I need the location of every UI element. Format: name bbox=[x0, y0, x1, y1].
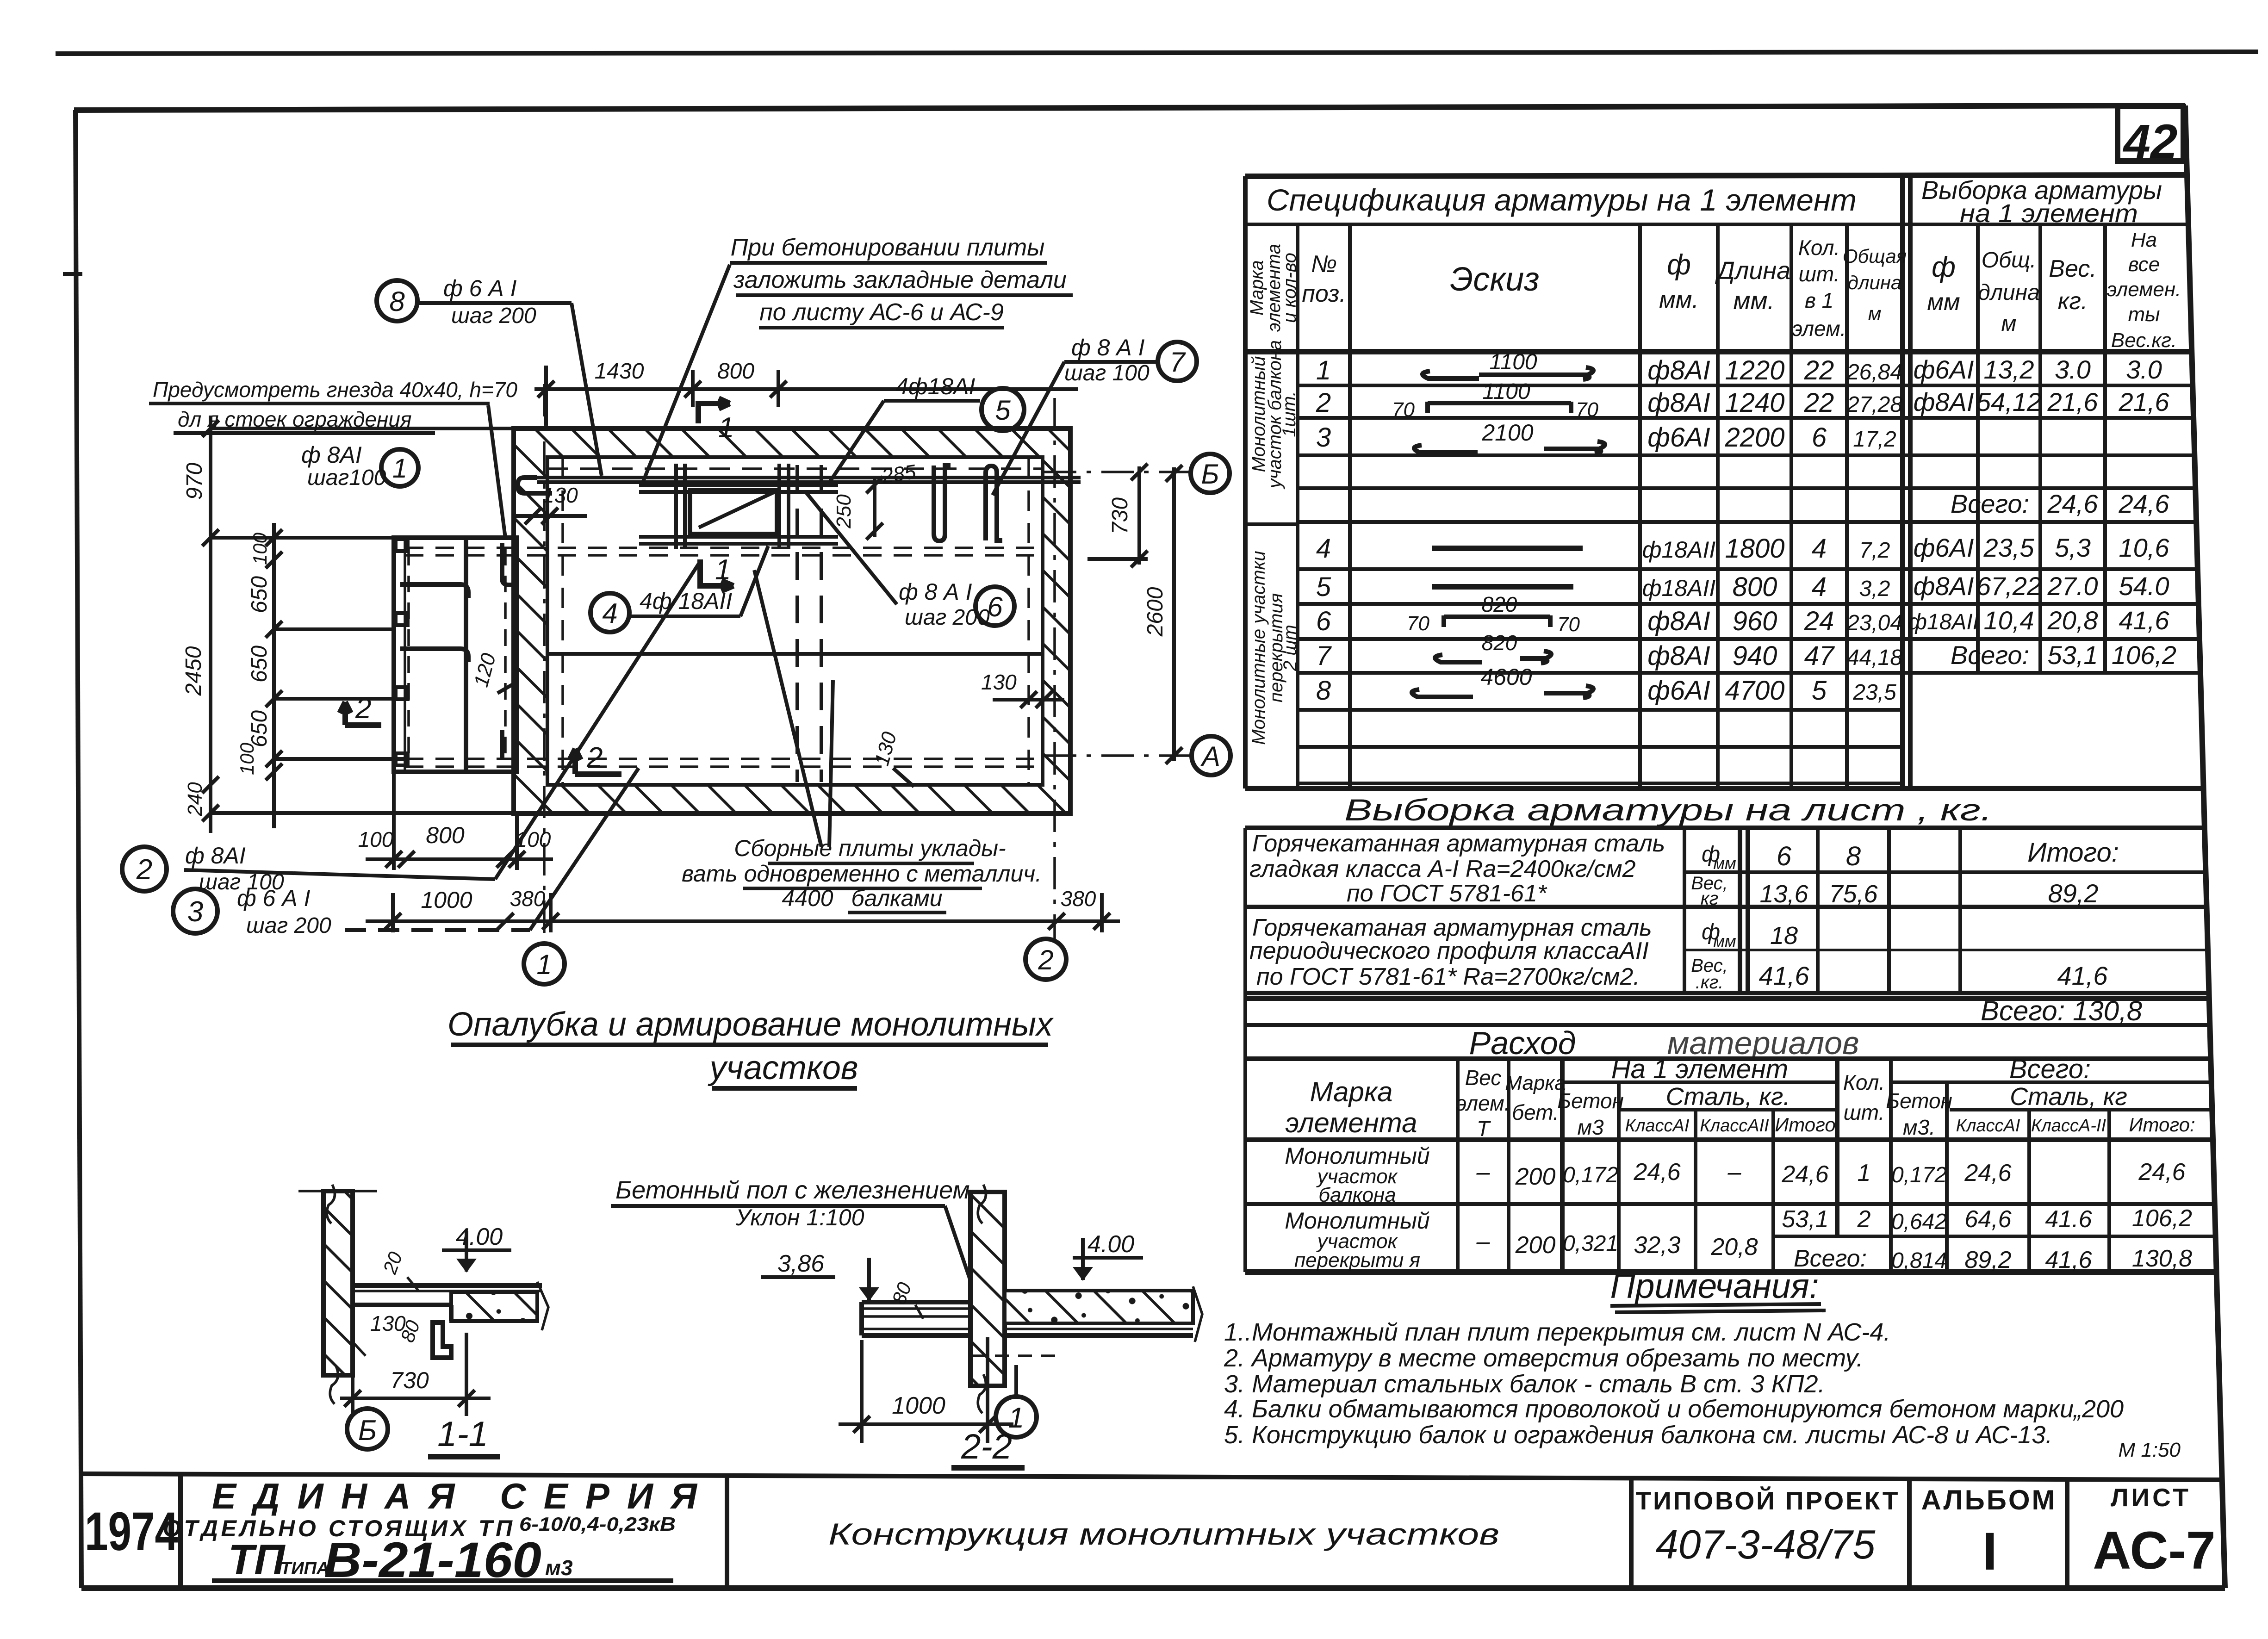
page border bottom bbox=[81, 1585, 2225, 1591]
axis A horizontal bbox=[1044, 754, 1191, 757]
svg-text:участков: участков bbox=[708, 1049, 858, 1086]
svg-text:1: 1 bbox=[718, 412, 734, 444]
svg-text:Итого:: Итого: bbox=[2027, 838, 2119, 868]
svg-text:Т: Т bbox=[1477, 1117, 1491, 1141]
svg-text:Всего:: Всего: bbox=[1951, 489, 2029, 518]
svg-text:Марка: Марка bbox=[1505, 1072, 1566, 1094]
svg-text:шаг 200: шаг 200 bbox=[905, 605, 990, 630]
svg-text:АС-7: АС-7 bbox=[2093, 1521, 2216, 1580]
svg-text:2: 2 bbox=[586, 742, 603, 774]
axis bubble 2 bbox=[1025, 939, 1066, 980]
svg-text:2: 2 bbox=[136, 854, 152, 886]
wall hatch bottom band bbox=[514, 785, 1070, 813]
title block series bbox=[163, 1476, 698, 1588]
section mark 2 balcony bbox=[340, 702, 381, 725]
notes text bbox=[1224, 1318, 2181, 1461]
svg-text:41,6: 41,6 bbox=[2045, 1247, 2092, 1273]
dim 130 right bbox=[993, 691, 1064, 708]
balcony bar 1 bbox=[400, 584, 468, 598]
svg-text:Б: Б bbox=[358, 1415, 377, 1447]
svg-text:Выборка арматуры на лис: Выборка арматуры на лист , кг. bbox=[1344, 793, 1992, 827]
svg-text:шаг 200: шаг 200 bbox=[451, 304, 536, 328]
svg-text:м: м bbox=[2001, 311, 2017, 336]
svg-text:106,2: 106,2 bbox=[2132, 1205, 2192, 1232]
top dim line 1430 / 800 bbox=[534, 366, 1078, 426]
svg-text:мм.: мм. bbox=[1659, 286, 1699, 313]
svg-text:вать одновременно с металлич.: вать одновременно с металлич. bbox=[682, 861, 1042, 887]
svg-text:шаг 200: шаг 200 bbox=[246, 913, 331, 938]
svg-text:ф 6 А I: ф 6 А I bbox=[237, 885, 311, 911]
svg-text:м: м bbox=[1868, 303, 1882, 324]
svg-text:20,8: 20,8 bbox=[1710, 1234, 1758, 1260]
svg-text:3,86: 3,86 bbox=[777, 1250, 824, 1277]
svg-text:КлассАI: КлассАI bbox=[1956, 1116, 2020, 1136]
svg-text:800: 800 bbox=[426, 822, 465, 848]
svg-text:800: 800 bbox=[1733, 572, 1777, 602]
svg-text:ЛИСТ: ЛИСТ bbox=[2111, 1483, 2191, 1512]
svg-text:64,6: 64,6 bbox=[1964, 1206, 2011, 1233]
axis bubble 1 section bbox=[996, 1397, 1037, 1437]
svg-text:дл я стоек ограждения: дл я стоек ограждения bbox=[178, 407, 412, 431]
svg-text:4. Балки обматываются провол: 4. Балки обматываются проволокой и обето… bbox=[1224, 1395, 2124, 1423]
svg-text:0,321: 0,321 bbox=[1563, 1231, 1618, 1256]
svg-text:–: – bbox=[1727, 1159, 1742, 1186]
svg-text:820: 820 bbox=[1482, 592, 1517, 616]
svg-text:8: 8 bbox=[1316, 676, 1331, 706]
right concrete slab bbox=[1005, 1291, 1193, 1323]
anchor plates bbox=[396, 539, 408, 551]
svg-text:1..Монтажный план плит пере: 1..Монтажный план плит перекрытия см. ли… bbox=[1224, 1318, 1890, 1346]
svg-text:380: 380 bbox=[510, 887, 546, 911]
svg-text:в 1: в 1 bbox=[1805, 288, 1833, 312]
svg-text:130,8: 130,8 bbox=[2132, 1245, 2192, 1272]
svg-text:24,6: 24,6 bbox=[1781, 1161, 1828, 1188]
svg-text:кг.: кг. bbox=[2058, 288, 2088, 315]
svg-text:44,18: 44,18 bbox=[1847, 646, 1902, 670]
dim 730 right bbox=[1087, 464, 1148, 567]
svg-text:ф: ф bbox=[1932, 251, 1956, 283]
svg-text:100: 100 bbox=[249, 532, 271, 565]
svg-text:240: 240 bbox=[184, 782, 206, 817]
svg-text:1шт.: 1шт. bbox=[1279, 391, 1299, 437]
svg-text:47: 47 bbox=[1804, 641, 1835, 671]
svg-text:26,84: 26,84 bbox=[1846, 360, 1902, 385]
wall hatch left band bbox=[514, 428, 547, 813]
svg-text:24: 24 bbox=[1804, 606, 1834, 636]
wall hatched bbox=[970, 1192, 1005, 1386]
svg-text:Всего:: Всего: bbox=[1951, 640, 2029, 670]
callout 6 bbox=[976, 587, 1014, 626]
svg-text:8: 8 bbox=[389, 286, 405, 317]
svg-text:м3: м3 bbox=[1577, 1115, 1604, 1139]
svg-text:100: 100 bbox=[236, 742, 258, 775]
svg-text:ф 8 А I: ф 8 А I bbox=[1071, 335, 1145, 360]
section mark 2 slab bbox=[570, 749, 621, 774]
svg-text:1800: 1800 bbox=[1725, 534, 1784, 564]
axis 1 vertical dash-dot bbox=[543, 384, 546, 944]
svg-text:На 1 элемент: На 1 элемент bbox=[1611, 1054, 1788, 1084]
svg-text:3.0: 3.0 bbox=[2055, 355, 2091, 384]
svg-text:–: – bbox=[1476, 1228, 1491, 1255]
svg-text:Бетон: Бетон bbox=[1557, 1089, 1624, 1113]
long dashed verticals bbox=[797, 465, 821, 782]
svg-text:27,28: 27,28 bbox=[1846, 392, 1902, 417]
svg-text:мм: мм bbox=[1927, 289, 1960, 316]
svg-text:кг: кг bbox=[1701, 888, 1719, 909]
svg-text:Б: Б bbox=[1201, 459, 1219, 490]
svg-text:75,6: 75,6 bbox=[1829, 880, 1878, 908]
svg-text:7: 7 bbox=[1316, 641, 1332, 671]
section mark 1 top bbox=[698, 398, 730, 423]
svg-text:53,1: 53,1 bbox=[2048, 640, 2098, 670]
svg-text:960: 960 bbox=[1733, 606, 1777, 636]
bar pair upper bbox=[639, 483, 838, 487]
svg-text:4700: 4700 bbox=[1725, 676, 1784, 706]
svg-text:ф18АII: ф18АII bbox=[1908, 610, 1979, 634]
svg-text:106,2: 106,2 bbox=[2112, 640, 2176, 670]
svg-text:4.00: 4.00 bbox=[456, 1223, 503, 1250]
svg-text:1240: 1240 bbox=[1725, 388, 1784, 418]
svg-text:Сталь, кг.: Сталь, кг. bbox=[1666, 1083, 1790, 1111]
svg-text:5. Конструкцию балок и огра: 5. Конструкцию балок и ограждения балкон… bbox=[1224, 1421, 2052, 1449]
svg-text:4ф18АI: 4ф18АI bbox=[895, 373, 976, 399]
svg-text:0,172: 0,172 bbox=[1891, 1163, 1947, 1187]
slab inner outline bbox=[547, 457, 1043, 785]
svg-text:Всего:: Всего: bbox=[2009, 1054, 2091, 1084]
svg-text:2100: 2100 bbox=[1481, 420, 1533, 446]
svg-text:940: 940 bbox=[1733, 641, 1777, 671]
svg-text:по ГОСТ 5781-61* Rа=2700кг/см2: по ГОСТ 5781-61* Rа=2700кг/см2. bbox=[1256, 963, 1640, 990]
svg-text:I: I bbox=[1982, 1522, 1997, 1581]
svg-text:мм.: мм. bbox=[1733, 287, 1774, 315]
svg-text:54,12: 54,12 bbox=[1976, 387, 2041, 416]
svg-text:70: 70 bbox=[1392, 398, 1415, 421]
svg-text:0,642: 0,642 bbox=[1891, 1210, 1947, 1234]
callout 4 bbox=[590, 593, 629, 632]
svg-text:элемента: элемента bbox=[1286, 1107, 1417, 1138]
svg-text:Горячекатанная арматурная ста: Горячекатанная арматурная сталь bbox=[1252, 830, 1665, 857]
svg-text:7,2: 7,2 bbox=[1859, 538, 1890, 563]
svg-text:АЛЬБОМ: АЛЬБОМ bbox=[1921, 1484, 2057, 1515]
svg-text:4ф 18АII: 4ф 18АII bbox=[640, 588, 732, 614]
svg-text:ф8АI: ф8АI bbox=[1914, 571, 1974, 601]
top rebar double line bbox=[537, 476, 1081, 479]
svg-text:32,3: 32,3 bbox=[1634, 1232, 1680, 1259]
svg-text:Всего:: Всего: bbox=[1794, 1245, 1867, 1272]
svg-text:все: все bbox=[2128, 253, 2160, 276]
dim 130 top-left bbox=[513, 508, 587, 524]
svg-text:21,6: 21,6 bbox=[2119, 387, 2170, 416]
balcony hook bar bottom bbox=[500, 730, 504, 759]
balcony bar 2 bbox=[400, 649, 468, 662]
svg-text:–: – bbox=[1476, 1159, 1491, 1186]
svg-text:по листу АС-6 и АС-9: по листу АС-6 и АС-9 bbox=[759, 299, 1004, 326]
axis bubble B bbox=[1191, 454, 1230, 493]
svg-text:по ГОСТ 5781-61*: по ГОСТ 5781-61* bbox=[1347, 880, 1547, 907]
svg-text:285: 285 bbox=[880, 460, 918, 488]
svg-text:Кол.: Кол. bbox=[1798, 236, 1840, 260]
svg-text:17,2: 17,2 bbox=[1853, 427, 1896, 452]
balcony beam line bbox=[464, 538, 468, 772]
wall hatched bbox=[323, 1191, 353, 1375]
svg-text:Эскиз: Эскиз bbox=[1450, 261, 1539, 298]
svg-text:200: 200 bbox=[1515, 1163, 1556, 1190]
svg-text:ф 8АI: ф 8АI bbox=[301, 442, 362, 468]
svg-text:1000: 1000 bbox=[421, 887, 472, 913]
inner dashed contour bbox=[547, 458, 1043, 784]
svg-text:41,6: 41,6 bbox=[1759, 961, 1810, 990]
svg-text:650: 650 bbox=[247, 576, 272, 613]
svg-text:4.00: 4.00 bbox=[1087, 1231, 1134, 1258]
svg-text:24,6: 24,6 bbox=[2047, 489, 2099, 518]
svg-text:ф18АII: ф18АII bbox=[1642, 537, 1716, 563]
svg-text:ф 8 А I: ф 8 А I bbox=[899, 579, 972, 605]
svg-text:2: 2 bbox=[1038, 944, 1053, 975]
svg-text:Бетонный пол с железнением: Бетонный пол с железнением bbox=[615, 1176, 970, 1204]
svg-text:4: 4 bbox=[1812, 572, 1827, 602]
balcony hook bar top bbox=[502, 543, 512, 585]
svg-text:периодического профиля класс: периодического профиля классаАII bbox=[1249, 937, 1649, 964]
svg-text:20,8: 20,8 bbox=[2047, 606, 2098, 635]
svg-text:Сборные плиты уклады-: Сборные плиты уклады- bbox=[734, 835, 1006, 861]
svg-text:22: 22 bbox=[1804, 355, 1834, 385]
svg-text:4: 4 bbox=[602, 598, 617, 629]
svg-text:70: 70 bbox=[1407, 612, 1429, 635]
svg-text:70: 70 bbox=[1557, 613, 1580, 636]
svg-text:4600: 4600 bbox=[1480, 664, 1532, 690]
svg-text:6-10/0,4-0,23кВ: 6-10/0,4-0,23кВ bbox=[519, 1513, 676, 1535]
svg-text:балками: балками bbox=[851, 885, 942, 911]
svg-text:3. Материал стальных балок: 3. Материал стальных балок - сталь В ст.… bbox=[1224, 1370, 1825, 1398]
svg-text:Расход: Расход bbox=[1469, 1025, 1576, 1061]
svg-text:длина: длина bbox=[1978, 280, 2039, 305]
svg-text:на 1 элемент: на 1 элемент bbox=[1960, 199, 2138, 228]
svg-text:ТИПОВОЙ ПРОЕКТ: ТИПОВОЙ ПРОЕКТ bbox=[1636, 1486, 1900, 1515]
svg-text:ф6АI: ф6АI bbox=[1914, 533, 1974, 562]
wall hatch top band bbox=[514, 428, 1070, 457]
svg-text:4: 4 bbox=[1316, 534, 1331, 564]
svg-text:ф8АI: ф8АI bbox=[1647, 388, 1710, 418]
right U-bar 2 bbox=[986, 466, 1002, 540]
svg-text:шаг 100: шаг 100 bbox=[1064, 361, 1150, 385]
svg-text:24,6: 24,6 bbox=[1633, 1159, 1680, 1186]
dim 285 / 250 bbox=[866, 477, 883, 540]
svg-text:№: № bbox=[1311, 251, 1337, 278]
svg-text:заложить закладные детали: заложить закладные детали bbox=[733, 267, 1067, 293]
svg-text:2450: 2450 bbox=[181, 646, 206, 696]
svg-text:ф18АII: ф18АII bbox=[1642, 575, 1716, 601]
concrete part bbox=[451, 1292, 537, 1321]
dim 2600 right bbox=[1166, 465, 1182, 764]
svg-text:Длина: Длина bbox=[1715, 257, 1790, 285]
svg-text:Предусмотреть гнезда 40х40, h=: Предусмотреть гнезда 40х40, h=70 bbox=[153, 378, 517, 402]
svg-text:КлассАII: КлассАII bbox=[1700, 1116, 1769, 1136]
svg-text:24,6: 24,6 bbox=[2119, 489, 2170, 518]
svg-text:1: 1 bbox=[1858, 1160, 1871, 1186]
svg-text:27.0: 27.0 bbox=[2047, 571, 2098, 601]
axis B horizontal bbox=[1044, 471, 1190, 473]
svg-text:м3.: м3. bbox=[1903, 1115, 1935, 1139]
bottom dim A 100-800-100 bbox=[366, 774, 553, 870]
svg-text:380: 380 bbox=[1061, 887, 1096, 911]
svg-text:89,2: 89,2 bbox=[2048, 879, 2099, 908]
svg-text:2-2: 2-2 bbox=[961, 1427, 1012, 1466]
svg-text:650: 650 bbox=[247, 710, 272, 747]
svg-text:23,5: 23,5 bbox=[1983, 533, 2035, 562]
svg-text:КлассА-II: КлассА-II bbox=[2031, 1116, 2106, 1136]
svg-text:элемен.: элемен. bbox=[2107, 278, 2181, 301]
svg-text:ф8АI: ф8АI bbox=[1647, 641, 1710, 671]
page border top bbox=[74, 106, 2185, 110]
svg-text:шт.: шт. bbox=[1844, 1100, 1885, 1124]
callout 1 (phi8 shag100) bbox=[381, 449, 418, 486]
opening rect with diagonal bbox=[690, 490, 777, 534]
svg-text:2600: 2600 bbox=[1143, 587, 1168, 637]
top trim line bbox=[56, 52, 2258, 54]
svg-text:41,6: 41,6 bbox=[2057, 961, 2108, 990]
svg-text:970: 970 bbox=[182, 463, 207, 500]
svg-text:130: 130 bbox=[981, 670, 1017, 694]
callout 3 bottom-left bbox=[173, 889, 217, 933]
axis 2 vertical dash-dot bbox=[1053, 398, 1056, 939]
svg-text:На: На bbox=[2131, 229, 2157, 251]
svg-text:Итого: Итого bbox=[1775, 1114, 1836, 1136]
svg-text:70: 70 bbox=[1576, 398, 1598, 421]
dashed bar rows mid bbox=[405, 548, 1043, 767]
section mark 1 bottom bbox=[700, 559, 733, 591]
svg-text:балкона: балкона bbox=[1318, 1184, 1396, 1206]
svg-text:ф6АI: ф6АI bbox=[1914, 355, 1974, 384]
svg-text:1: 1 bbox=[392, 453, 407, 484]
svg-text:ф6АI: ф6АI bbox=[1647, 422, 1710, 453]
callout 8 bbox=[377, 280, 417, 321]
svg-text:Сталь, кг: Сталь, кг bbox=[2010, 1083, 2127, 1111]
callout 2 bottom-left bbox=[122, 847, 167, 891]
hook left of top bar bbox=[518, 478, 552, 493]
svg-text:Вес.кг.: Вес.кг. bbox=[2111, 329, 2177, 352]
svg-text:250: 250 bbox=[833, 494, 855, 529]
svg-text:и кол-во: и кол-во bbox=[1280, 253, 1300, 323]
svg-text:ТИПА: ТИПА bbox=[280, 1559, 329, 1578]
wall hatch right band bbox=[1043, 428, 1070, 813]
svg-text:5: 5 bbox=[1812, 676, 1827, 706]
axis bubble 1 bbox=[524, 944, 565, 984]
svg-text:0,814: 0,814 bbox=[1891, 1248, 1947, 1273]
svg-text:42: 42 bbox=[2123, 115, 2178, 169]
notes title bbox=[1610, 1266, 1826, 1312]
svg-text:Итого:: Итого: bbox=[2129, 1114, 2195, 1136]
svg-text:КлассАI: КлассАI bbox=[1625, 1116, 1690, 1136]
svg-text:Опалубка и армирование моно: Опалубка и армирование монолитных bbox=[447, 1006, 1054, 1043]
svg-text:21,6: 21,6 bbox=[2047, 387, 2099, 416]
svg-text:200: 200 bbox=[1515, 1232, 1556, 1259]
svg-text:Конструкция монолитных участ: Конструкция монолитных участков bbox=[828, 1517, 1499, 1551]
axis bubble A bbox=[1192, 736, 1230, 775]
svg-text:бет.: бет. bbox=[1512, 1100, 1559, 1124]
svg-text:Общая: Общая bbox=[1843, 245, 1907, 267]
svg-text:1-1: 1-1 bbox=[437, 1415, 488, 1454]
svg-text:13,2: 13,2 bbox=[1984, 355, 2034, 384]
svg-text:2. Арматуру в месте отверст: 2. Арматуру в месте отверстия обрезать п… bbox=[1224, 1344, 1863, 1372]
step vertical bbox=[449, 1305, 454, 1321]
svg-text:3: 3 bbox=[187, 896, 203, 928]
svg-text:1220: 1220 bbox=[1725, 355, 1784, 385]
svg-text:М 1:50: М 1:50 bbox=[2118, 1439, 2181, 1461]
svg-text:Общ.: Общ. bbox=[1982, 248, 2037, 273]
svg-text:6: 6 bbox=[1316, 606, 1331, 636]
svg-text:2 шт: 2 шт bbox=[1280, 625, 1300, 671]
L-angle steel bbox=[433, 1322, 451, 1358]
svg-text:54.0: 54.0 bbox=[2119, 571, 2169, 601]
svg-text:89,2: 89,2 bbox=[1964, 1247, 2011, 1273]
svg-text:Кол.: Кол. bbox=[1843, 1070, 1885, 1094]
beam B vertical pair bbox=[777, 464, 781, 549]
svg-text:При бетонировании плиты: При бетонировании плиты bbox=[731, 234, 1045, 261]
sheet number box 42 bbox=[2118, 106, 2183, 169]
left dim chain outer bbox=[202, 416, 514, 833]
svg-text:ф8АI: ф8АI bbox=[1647, 606, 1710, 636]
dashed below wall bbox=[972, 1354, 1055, 1357]
svg-text:ф 8АI: ф 8АI bbox=[185, 843, 246, 869]
svg-text:53,1: 53,1 bbox=[1782, 1206, 1828, 1233]
svg-text:3,2: 3,2 bbox=[1859, 577, 1890, 601]
svg-text:24,6: 24,6 bbox=[2138, 1159, 2185, 1186]
slab lines bbox=[353, 1283, 542, 1288]
svg-text:1100: 1100 bbox=[1482, 379, 1530, 404]
svg-text:ф 6 А I: ф 6 А I bbox=[443, 275, 517, 301]
svg-text:мм: мм bbox=[1713, 931, 1736, 950]
svg-text:13,6: 13,6 bbox=[1759, 880, 1808, 908]
callout 5 bbox=[982, 388, 1024, 431]
page border left bbox=[75, 110, 81, 1588]
right U-bar 1 bbox=[934, 466, 951, 541]
svg-text:длина: длина bbox=[1848, 272, 1902, 293]
svg-text:2: 2 bbox=[1316, 388, 1331, 418]
svg-text:4: 4 bbox=[1812, 534, 1827, 564]
svg-text:0,172: 0,172 bbox=[1563, 1163, 1618, 1187]
svg-text:Марка: Марка bbox=[1310, 1076, 1392, 1107]
svg-text:шт.: шт. bbox=[1799, 262, 1840, 286]
svg-text:Всего: 130,8: Всего: 130,8 bbox=[1981, 995, 2143, 1026]
svg-text:8: 8 bbox=[1846, 841, 1861, 871]
svg-text:6: 6 bbox=[1812, 422, 1827, 453]
svg-text:поз.: поз. bbox=[1302, 280, 1346, 307]
svg-text:1100: 1100 bbox=[1489, 350, 1537, 374]
svg-text:1: 1 bbox=[1316, 355, 1331, 385]
svg-text:шаг100: шаг100 bbox=[307, 466, 386, 490]
svg-text:ТП: ТП bbox=[228, 1536, 286, 1583]
beam A vertical pair bbox=[674, 464, 678, 549]
left floor slab lines bbox=[862, 1302, 970, 1335]
svg-text:730: 730 bbox=[390, 1367, 429, 1393]
svg-text:10,6: 10,6 bbox=[2119, 533, 2170, 562]
svg-text:10,4: 10,4 bbox=[1984, 606, 2034, 635]
svg-text:1000: 1000 bbox=[892, 1392, 945, 1419]
svg-text:650: 650 bbox=[247, 646, 272, 683]
svg-text:130: 130 bbox=[542, 483, 578, 507]
svg-text:3: 3 bbox=[1316, 422, 1331, 453]
svg-text:А: А bbox=[1200, 741, 1220, 772]
svg-text:Уклон 1:100: Уклон 1:100 bbox=[735, 1204, 864, 1230]
svg-text:18: 18 bbox=[1770, 922, 1798, 950]
svg-text:407-3-48/75: 407-3-48/75 bbox=[1656, 1521, 1876, 1567]
svg-text:41.6: 41.6 bbox=[2045, 1206, 2092, 1233]
svg-text:41,6: 41,6 bbox=[2119, 606, 2170, 635]
svg-text:гладкая класса А-I Rа=2400кг/: гладкая класса А-I Rа=2400кг/см2 bbox=[1249, 856, 1636, 882]
svg-text:2: 2 bbox=[1857, 1206, 1871, 1233]
svg-text:3.0: 3.0 bbox=[2126, 355, 2162, 384]
svg-text:1430: 1430 bbox=[595, 359, 644, 384]
